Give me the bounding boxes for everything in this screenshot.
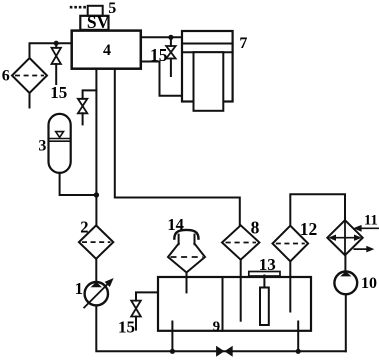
bleed valve (below block 4) (78, 99, 87, 114)
svg-text:15: 15 (150, 45, 168, 65)
svg-text:1: 1 (75, 279, 83, 298)
node bottom line right (296, 349, 301, 354)
drain valve on bottom line (filled) (216, 346, 233, 357)
valve 15 (top-left) (52, 48, 61, 64)
wire below bleed valve, open end (82, 113, 84, 124)
pump 10 (334, 271, 357, 294)
svg-text:6: 6 (2, 68, 10, 85)
coolant inlet arrow at cooler 11 (353, 225, 379, 232)
wire below valve 15 (top-left), open end (55, 64, 57, 84)
svg-text:9: 9 (213, 319, 221, 335)
accumulator 3 body (49, 114, 71, 173)
valve 15 (tank side) (131, 301, 141, 317)
wire block4 left bottom port down to filter 2 (95, 69, 97, 226)
filter 2 (diamond) (79, 225, 113, 258)
magnetic plug 13 bracket (249, 272, 280, 277)
wire junction down to valve 15 (top-right) (170, 37, 172, 46)
wire filter 12 top over to cooler 11 (290, 194, 345, 226)
cooler 11 (diamond with arrows) (327, 220, 362, 255)
wire pump 10 down to bottom line (345, 294, 347, 351)
wire breather 14 into tank (186, 273, 188, 293)
node junction on cylinder top wire (168, 35, 173, 40)
accumulator 3 gas triangle (56, 132, 64, 138)
filter 8 (diamond) (222, 225, 259, 259)
valve 15 (top-right) (166, 46, 175, 59)
wire below valve 15 (top-right), open end (170, 59, 172, 77)
wire tank left stub to bottom line (171, 322, 173, 352)
wire cooler 11 to pump 10 (344, 255, 346, 272)
pilot device 5 (small box) (88, 6, 103, 16)
wire pump 1 down to bottom line (96, 305, 345, 351)
solenoid valve SV box (80, 16, 108, 30)
svg-text:10: 10 (361, 275, 377, 292)
svg-text:3: 3 (38, 138, 46, 155)
tank baffle (222, 277, 224, 331)
svg-text:12: 12 (300, 219, 318, 239)
wire tank right stub to bottom line (297, 322, 299, 352)
wire filter 2 to pump 1 (95, 259, 97, 282)
wire bleed valve branch (83, 90, 97, 98)
svg-text:13: 13 (259, 255, 276, 274)
svg-text:8: 8 (251, 218, 260, 238)
wire filter 12 into tank (289, 261, 291, 311)
filter F6 (air filter diamond) (12, 58, 47, 93)
node junction accumulator/pump line (94, 192, 99, 197)
svg-text:2: 2 (80, 217, 88, 236)
wire filter 8 into tank (240, 260, 242, 321)
cylinder 7 piston line upper (182, 43, 233, 45)
wire accumulator to pump line junction (60, 173, 97, 195)
magnetic plug 13 stem (263, 276, 265, 288)
cylinder 7 rod (194, 52, 224, 111)
wire below filter F6, open end (29, 93, 31, 108)
tank 9 (158, 277, 311, 331)
svg-text:14: 14 (167, 215, 184, 234)
svg-text:SV: SV (87, 12, 110, 32)
cylinder 7 piston line lower (182, 51, 233, 53)
svg-text:15: 15 (118, 318, 135, 337)
wire filter6 top to block4 left (30, 43, 72, 58)
wire tank-side valve 15 branch (136, 292, 158, 300)
node junction on block4 left wire (54, 41, 59, 46)
wire block4 right to cylinder 7 top port (141, 36, 182, 38)
coolant outlet arrow at cooler 11 (354, 246, 374, 253)
cylinder 7 outer body (182, 31, 233, 102)
accumulator 3 separator lines (49, 138, 71, 140)
svg-text:5: 5 (108, 0, 116, 17)
filter 12 (diamond) (273, 226, 309, 262)
wire block4 right to cylinder 7 bottom port (141, 62, 182, 96)
svg-text:11: 11 (364, 213, 378, 229)
svg-text:15: 15 (50, 83, 67, 102)
svg-text:7: 7 (239, 35, 247, 52)
magnetic plug 13 body (260, 288, 269, 326)
lever of pilot device 5 (dashed) (70, 6, 89, 9)
svg-text:4: 4 (103, 42, 111, 59)
pump 1 (variable displacement) (84, 278, 113, 308)
wire junction to valve 15 (top-left) (55, 43, 57, 48)
node bottom line left (170, 349, 175, 354)
wire below tank-side valve 15, open end (135, 317, 137, 330)
wire block4 right bottom port to filter 8 (115, 69, 240, 226)
breather 14 (diamond with cap) (168, 230, 205, 273)
valve block 4 (72, 31, 141, 69)
